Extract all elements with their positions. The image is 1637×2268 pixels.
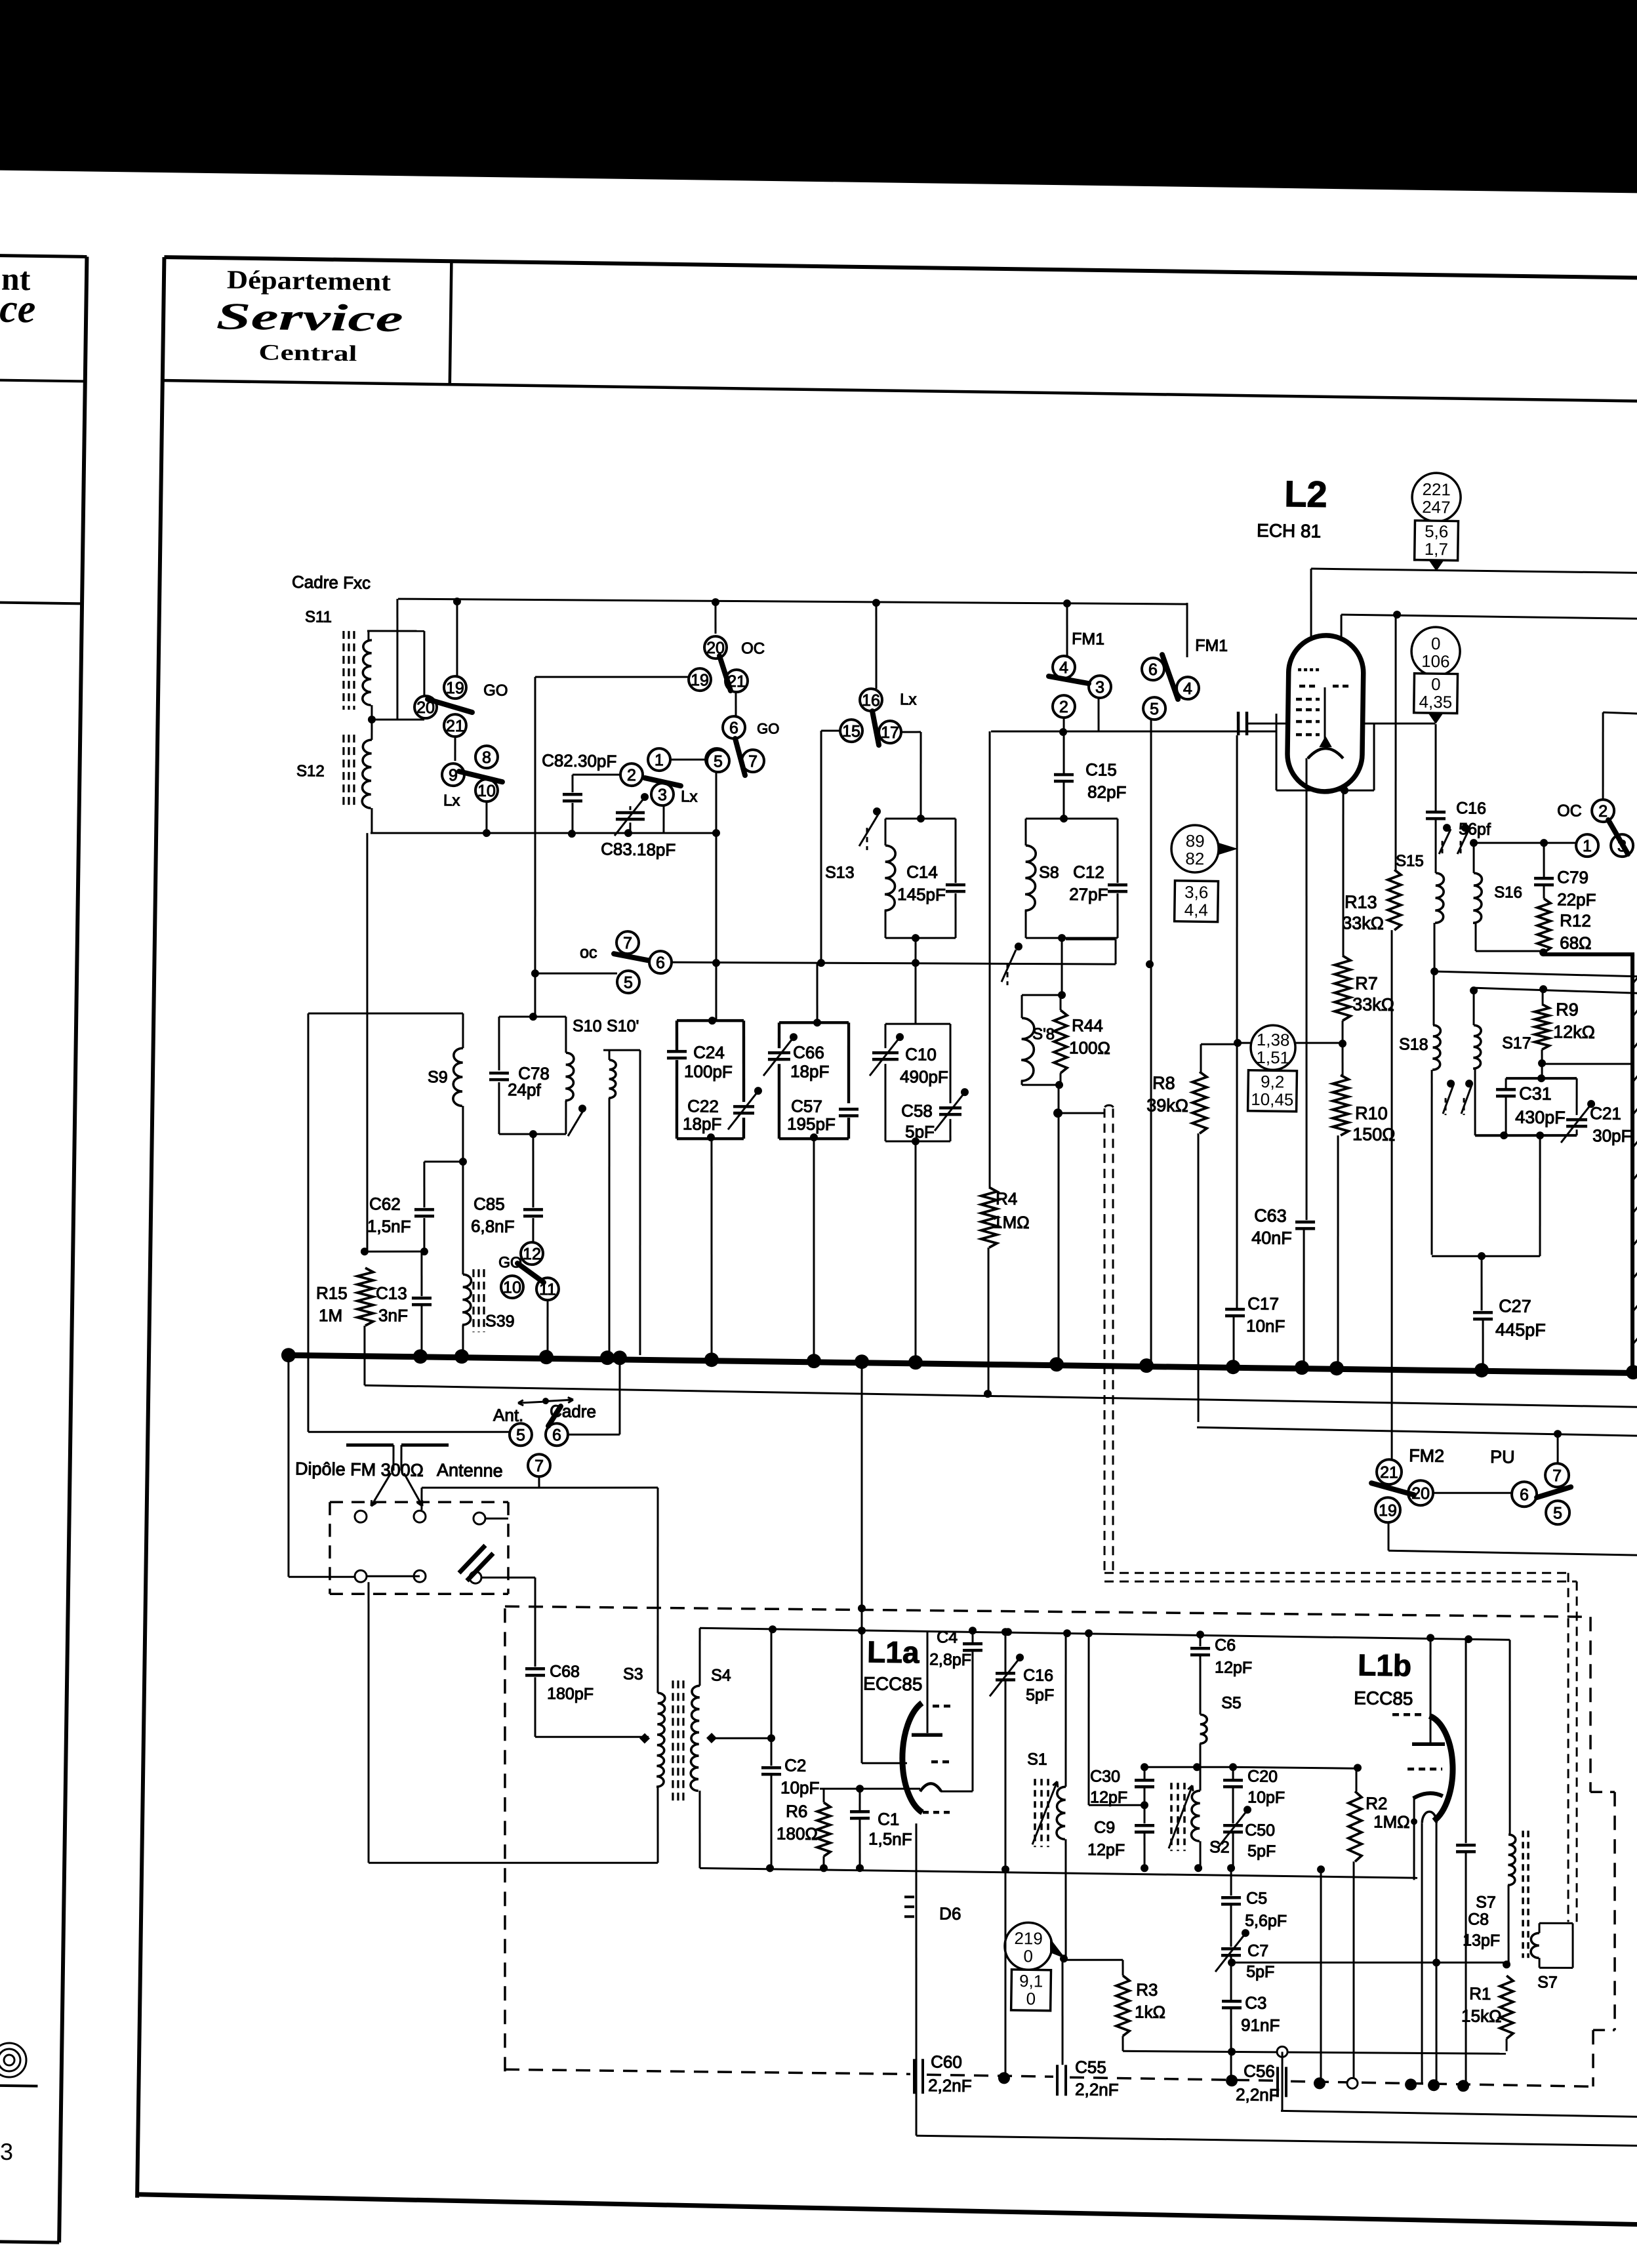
svg-text:18pF: 18pF bbox=[790, 1061, 830, 1082]
svg-text:1: 1 bbox=[1583, 837, 1592, 855]
svg-text:100pF: 100pF bbox=[684, 1061, 733, 1082]
svg-text:C68: C68 bbox=[550, 1662, 580, 1681]
svg-text:R15: R15 bbox=[316, 1283, 348, 1303]
svg-text:C30: C30 bbox=[1090, 1767, 1120, 1786]
svg-text:ECC85: ECC85 bbox=[1354, 1688, 1413, 1709]
svg-text:1,7: 1,7 bbox=[1425, 539, 1449, 559]
svg-text:4,35: 4,35 bbox=[1419, 692, 1452, 712]
svg-text:C12: C12 bbox=[1073, 862, 1104, 882]
svg-text:C20: C20 bbox=[1247, 1767, 1278, 1786]
svg-text:6,8nF: 6,8nF bbox=[471, 1216, 515, 1236]
svg-text:C6: C6 bbox=[1215, 1636, 1236, 1654]
svg-text:430pF: 430pF bbox=[1515, 1107, 1566, 1127]
svg-text:R1: R1 bbox=[1469, 1983, 1491, 2003]
svg-text:L2: L2 bbox=[1284, 473, 1327, 515]
svg-text:S16: S16 bbox=[1494, 883, 1522, 902]
svg-text:C4: C4 bbox=[937, 1628, 958, 1646]
svg-text:10nF: 10nF bbox=[1246, 1316, 1285, 1336]
svg-text:C22: C22 bbox=[687, 1096, 719, 1116]
svg-text:1kΩ: 1kΩ bbox=[1135, 2002, 1165, 2022]
svg-text:82: 82 bbox=[1185, 849, 1204, 868]
svg-text:12pF: 12pF bbox=[1215, 1658, 1252, 1677]
svg-text:21: 21 bbox=[446, 717, 464, 735]
svg-text:39kΩ: 39kΩ bbox=[1146, 1095, 1188, 1116]
svg-text:33kΩ: 33kΩ bbox=[1342, 913, 1384, 933]
svg-text:12pF: 12pF bbox=[1087, 1840, 1125, 1859]
svg-text:0: 0 bbox=[1431, 674, 1441, 694]
svg-text:C2: C2 bbox=[784, 1755, 807, 1775]
svg-text:150Ω: 150Ω bbox=[1352, 1124, 1396, 1144]
svg-text:C63: C63 bbox=[1254, 1205, 1287, 1226]
svg-text:S12: S12 bbox=[296, 762, 325, 780]
svg-text:S15: S15 bbox=[1396, 852, 1424, 870]
svg-text:R10: R10 bbox=[1355, 1103, 1388, 1124]
svg-text:5pF: 5pF bbox=[1247, 1842, 1276, 1861]
svg-text:Cadre Fxc: Cadre Fxc bbox=[292, 572, 371, 593]
svg-text:21: 21 bbox=[1380, 1463, 1398, 1482]
svg-text:91nF: 91nF bbox=[1241, 2015, 1280, 2035]
svg-text:33kΩ: 33kΩ bbox=[1352, 994, 1394, 1015]
svg-text:GO: GO bbox=[757, 720, 780, 737]
svg-text:5: 5 bbox=[516, 1426, 525, 1444]
svg-text:27pF: 27pF bbox=[1069, 884, 1108, 904]
svg-text:1M: 1M bbox=[319, 1305, 343, 1326]
svg-text:5pF: 5pF bbox=[905, 1122, 935, 1142]
svg-text:219: 219 bbox=[1014, 1928, 1043, 1949]
svg-text:C62: C62 bbox=[369, 1194, 401, 1214]
svg-text:106: 106 bbox=[1421, 651, 1450, 672]
svg-text:L1b: L1b bbox=[1358, 1648, 1411, 1682]
svg-text:12kΩ: 12kΩ bbox=[1553, 1022, 1595, 1042]
svg-text:S7: S7 bbox=[1476, 1893, 1496, 1911]
svg-text:89: 89 bbox=[1186, 831, 1205, 851]
svg-text:24pf: 24pf bbox=[508, 1080, 542, 1100]
svg-text:ECH 81: ECH 81 bbox=[1257, 520, 1321, 541]
svg-text:10: 10 bbox=[477, 782, 496, 800]
svg-text:C17: C17 bbox=[1247, 1293, 1279, 1314]
svg-text:Lx: Lx bbox=[443, 792, 460, 809]
svg-text:C5: C5 bbox=[1246, 1889, 1267, 1907]
svg-text:18pF: 18pF bbox=[683, 1114, 722, 1134]
svg-text:Lx: Lx bbox=[900, 691, 917, 708]
svg-text:C57: C57 bbox=[791, 1096, 822, 1116]
svg-text:5: 5 bbox=[1150, 700, 1159, 718]
svg-text:C27: C27 bbox=[1499, 1296, 1531, 1316]
svg-text:2,2nF: 2,2nF bbox=[928, 2075, 972, 2096]
svg-text:8: 8 bbox=[482, 748, 491, 767]
svg-text:19: 19 bbox=[446, 679, 464, 697]
svg-text:19: 19 bbox=[1379, 1501, 1397, 1520]
svg-text:S3: S3 bbox=[623, 1665, 643, 1683]
svg-text:3: 3 bbox=[0, 2138, 13, 2165]
svg-text:ce: ce bbox=[0, 287, 36, 332]
svg-text:2,2nF: 2,2nF bbox=[1236, 2084, 1280, 2105]
svg-text:D6: D6 bbox=[939, 1903, 961, 1923]
svg-text:S1: S1 bbox=[1027, 1750, 1047, 1768]
svg-text:10pF: 10pF bbox=[1247, 1788, 1285, 1807]
svg-text:5,6: 5,6 bbox=[1425, 521, 1449, 542]
svg-text:20: 20 bbox=[706, 639, 725, 657]
svg-text:S10': S10' bbox=[607, 1017, 639, 1036]
svg-text:S'8: S'8 bbox=[1032, 1025, 1055, 1043]
svg-text:S5: S5 bbox=[1221, 1693, 1242, 1712]
svg-text:13pF: 13pF bbox=[1463, 1931, 1500, 1950]
svg-text:6: 6 bbox=[552, 1426, 561, 1444]
svg-text:5pF: 5pF bbox=[1246, 1962, 1274, 1981]
svg-text:C15: C15 bbox=[1085, 759, 1117, 780]
svg-text:22pF: 22pF bbox=[1557, 889, 1596, 910]
svg-text:Central: Central bbox=[258, 340, 357, 366]
svg-text:82pF: 82pF bbox=[1087, 782, 1127, 802]
svg-text:2,8pF: 2,8pF bbox=[929, 1650, 971, 1669]
svg-text:C82.30pF: C82.30pF bbox=[542, 750, 617, 771]
svg-text:R4: R4 bbox=[996, 1188, 1018, 1208]
svg-text:C21: C21 bbox=[1590, 1103, 1621, 1124]
svg-text:C24: C24 bbox=[693, 1042, 725, 1063]
svg-text:2: 2 bbox=[627, 766, 636, 784]
svg-text:9,2: 9,2 bbox=[1261, 1072, 1285, 1092]
svg-text:195pF: 195pF bbox=[787, 1114, 836, 1134]
svg-text:6: 6 bbox=[1520, 1486, 1529, 1504]
svg-text:C60: C60 bbox=[931, 2052, 962, 2072]
svg-text:180Ω: 180Ω bbox=[777, 1823, 818, 1844]
svg-text:3,6: 3,6 bbox=[1184, 882, 1209, 902]
svg-text:S11: S11 bbox=[305, 608, 332, 626]
svg-text:40nF: 40nF bbox=[1251, 1228, 1292, 1248]
svg-text:16: 16 bbox=[862, 691, 880, 710]
svg-text:S13: S13 bbox=[825, 863, 855, 882]
svg-text:4: 4 bbox=[1183, 679, 1192, 698]
svg-text:S7: S7 bbox=[1537, 1973, 1558, 1991]
svg-text:6: 6 bbox=[656, 954, 665, 972]
svg-text:Département: Département bbox=[227, 264, 392, 296]
svg-text:C83.18pF: C83.18pF bbox=[601, 839, 676, 860]
svg-text:S39: S39 bbox=[485, 1312, 515, 1331]
svg-text:9: 9 bbox=[449, 766, 458, 784]
svg-text:R6: R6 bbox=[786, 1801, 808, 1821]
svg-text:R8: R8 bbox=[1152, 1073, 1175, 1093]
svg-text:Service: Service bbox=[216, 294, 403, 340]
svg-text:15kΩ: 15kΩ bbox=[1461, 2006, 1502, 2026]
svg-text:490pF: 490pF bbox=[900, 1066, 948, 1087]
svg-text:R9: R9 bbox=[1556, 1000, 1579, 1019]
svg-text:Ant.: Ant. bbox=[493, 1405, 524, 1425]
svg-text:7: 7 bbox=[748, 752, 758, 771]
svg-text:3nF: 3nF bbox=[378, 1305, 408, 1326]
svg-text:FM1: FM1 bbox=[1072, 630, 1104, 649]
svg-text:10pF: 10pF bbox=[780, 1777, 820, 1798]
svg-text:2: 2 bbox=[1059, 698, 1068, 716]
svg-text:ECC85: ECC85 bbox=[863, 1673, 923, 1694]
svg-text:OC: OC bbox=[1557, 801, 1582, 820]
svg-text:R2: R2 bbox=[1365, 1793, 1388, 1813]
svg-text:R7: R7 bbox=[1355, 973, 1378, 993]
svg-text:5,6pF: 5,6pF bbox=[1245, 1911, 1287, 1930]
svg-text:1,5nF: 1,5nF bbox=[367, 1216, 411, 1236]
svg-text:180pF: 180pF bbox=[547, 1684, 594, 1703]
svg-text:C10: C10 bbox=[905, 1044, 937, 1064]
svg-text:R13: R13 bbox=[1344, 892, 1377, 912]
svg-text:C85: C85 bbox=[474, 1194, 505, 1214]
svg-text:221: 221 bbox=[1422, 479, 1451, 500]
svg-text:C66: C66 bbox=[793, 1042, 824, 1063]
svg-text:1: 1 bbox=[655, 751, 664, 769]
svg-text:10,45: 10,45 bbox=[1251, 1089, 1293, 1110]
svg-text:68Ω: 68Ω bbox=[1560, 933, 1592, 953]
svg-text:6: 6 bbox=[729, 719, 738, 737]
svg-text:0: 0 bbox=[1431, 634, 1441, 653]
svg-text:7: 7 bbox=[535, 1457, 544, 1475]
svg-text:30pF: 30pF bbox=[1592, 1125, 1632, 1146]
svg-text:9,1: 9,1 bbox=[1019, 1971, 1043, 1991]
svg-text:C9: C9 bbox=[1094, 1818, 1115, 1836]
svg-text:19: 19 bbox=[691, 671, 709, 689]
svg-text:S18: S18 bbox=[1399, 1035, 1428, 1054]
svg-text:C58: C58 bbox=[901, 1101, 933, 1121]
svg-text:FM2: FM2 bbox=[1409, 1446, 1444, 1466]
svg-text:S10: S10 bbox=[573, 1017, 602, 1036]
svg-text:4,4: 4,4 bbox=[1184, 900, 1209, 920]
svg-text:1,38: 1,38 bbox=[1257, 1030, 1290, 1050]
svg-text:S9: S9 bbox=[428, 1068, 448, 1086]
svg-text:C56: C56 bbox=[1243, 2061, 1275, 2081]
svg-text:0: 0 bbox=[1023, 1946, 1033, 1966]
svg-text:4: 4 bbox=[1059, 658, 1068, 677]
svg-text:oc: oc bbox=[580, 943, 597, 962]
svg-text:C8: C8 bbox=[1468, 1910, 1489, 1928]
svg-text:7: 7 bbox=[623, 934, 632, 952]
svg-text:1MΩ: 1MΩ bbox=[993, 1212, 1030, 1232]
svg-text:2,2nF: 2,2nF bbox=[1075, 2079, 1119, 2099]
svg-text:C7: C7 bbox=[1247, 1941, 1268, 1960]
svg-text:145pF: 145pF bbox=[897, 884, 946, 904]
svg-text:C55: C55 bbox=[1075, 2057, 1106, 2077]
svg-text:0: 0 bbox=[1026, 1989, 1036, 2008]
svg-text:C79: C79 bbox=[1557, 867, 1588, 887]
svg-text:2: 2 bbox=[1598, 802, 1607, 820]
svg-text:PU: PU bbox=[1490, 1447, 1515, 1467]
svg-text:1,51: 1,51 bbox=[1256, 1047, 1289, 1068]
svg-text:C16: C16 bbox=[1023, 1666, 1053, 1685]
svg-text:10: 10 bbox=[503, 1278, 521, 1297]
svg-text:5: 5 bbox=[714, 752, 723, 771]
svg-text:OC: OC bbox=[741, 639, 765, 658]
svg-text:12pF: 12pF bbox=[1090, 1788, 1127, 1807]
svg-text:Lx: Lx bbox=[681, 788, 698, 805]
svg-text:S17: S17 bbox=[1502, 1034, 1531, 1053]
svg-text:5pF: 5pF bbox=[1026, 1686, 1054, 1705]
svg-text:S2: S2 bbox=[1209, 1838, 1230, 1856]
svg-text:445pF: 445pF bbox=[1495, 1320, 1546, 1340]
svg-text:247: 247 bbox=[1422, 497, 1451, 517]
svg-text:Antenne: Antenne bbox=[437, 1460, 503, 1480]
svg-text:12: 12 bbox=[523, 1245, 541, 1263]
svg-text:R12: R12 bbox=[1560, 910, 1591, 931]
svg-text:5: 5 bbox=[1553, 1504, 1562, 1522]
svg-text:C14: C14 bbox=[906, 862, 938, 882]
svg-text:R3: R3 bbox=[1136, 1979, 1158, 1999]
svg-text:7: 7 bbox=[1552, 1467, 1562, 1485]
svg-text:C3: C3 bbox=[1245, 1993, 1267, 2012]
svg-text:6: 6 bbox=[1148, 660, 1158, 679]
svg-text:17: 17 bbox=[881, 723, 899, 742]
svg-text:R44: R44 bbox=[1072, 1015, 1103, 1036]
svg-text:3: 3 bbox=[658, 786, 667, 804]
svg-text:C50: C50 bbox=[1245, 1821, 1275, 1840]
svg-text:5: 5 bbox=[624, 973, 633, 992]
svg-text:C13: C13 bbox=[376, 1283, 407, 1303]
svg-text:S4: S4 bbox=[711, 1666, 731, 1684]
svg-text:FM1: FM1 bbox=[1195, 636, 1228, 655]
svg-text:S8: S8 bbox=[1039, 863, 1059, 881]
svg-text:C31: C31 bbox=[1519, 1083, 1552, 1104]
svg-text:100Ω: 100Ω bbox=[1069, 1038, 1110, 1058]
svg-text:C16: C16 bbox=[1456, 799, 1486, 818]
svg-text:15: 15 bbox=[842, 722, 860, 740]
svg-text:Dipôle FM 300Ω: Dipôle FM 300Ω bbox=[295, 1459, 424, 1480]
svg-text:1,5nF: 1,5nF bbox=[868, 1829, 912, 1849]
svg-text:1MΩ: 1MΩ bbox=[1373, 1812, 1410, 1832]
svg-text:3: 3 bbox=[1095, 678, 1104, 697]
svg-text:L1a: L1a bbox=[867, 1634, 920, 1669]
svg-text:GO: GO bbox=[483, 681, 508, 700]
svg-text:C1: C1 bbox=[878, 1809, 900, 1829]
